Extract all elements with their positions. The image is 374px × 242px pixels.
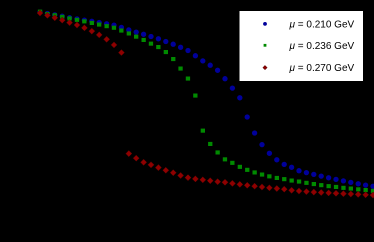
data series: blue circles mu = 0.210 GeV bbox=[37, 10, 374, 189]
legend marker circle bbox=[263, 22, 267, 26]
svg-text:μ = 0.236 GeV: μ = 0.236 GeV bbox=[289, 41, 355, 52]
data series: green squares mu = 0.236 GeV bbox=[38, 10, 374, 193]
legend marker diamond bbox=[263, 65, 267, 69]
data series: red diamonds mu = 0.270 GeV bbox=[37, 10, 374, 198]
legend marker square bbox=[264, 44, 267, 47]
legend frame bbox=[239, 11, 364, 82]
svg-text:μ = 0.210 GeV: μ = 0.210 GeV bbox=[289, 20, 355, 31]
svg-text:μ = 0.270 GeV: μ = 0.270 GeV bbox=[289, 63, 355, 74]
